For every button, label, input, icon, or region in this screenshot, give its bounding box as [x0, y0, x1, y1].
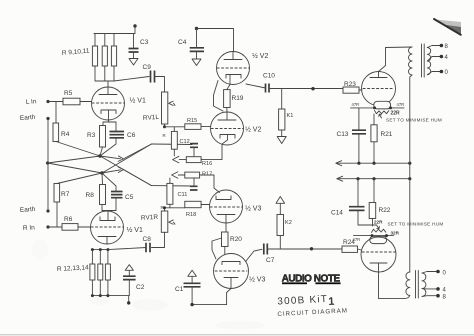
svg-text:C4: C4: [178, 39, 187, 46]
svg-text:R 12,13,14: R 12,13,14: [57, 264, 90, 273]
svg-text:R In: R In: [23, 224, 36, 232]
svg-text:47R: 47R: [352, 102, 360, 107]
svg-text:½ V1: ½ V1: [127, 226, 143, 234]
svg-text:22R: 22R: [391, 111, 401, 117]
svg-text:R 9,10,11: R 9,10,11: [62, 48, 91, 57]
svg-text:C2: C2: [136, 284, 145, 291]
svg-text:C5: C5: [125, 194, 134, 201]
svg-text:R20: R20: [230, 236, 242, 243]
svg-text:300B KiT: 300B KiT: [277, 294, 328, 308]
svg-text:4: 4: [445, 55, 449, 61]
svg-text:R6: R6: [64, 216, 73, 223]
svg-text:1: 1: [328, 296, 335, 308]
svg-text:C14: C14: [331, 210, 343, 217]
svg-text:C6: C6: [127, 132, 136, 139]
svg-text:C1: C1: [175, 286, 184, 293]
svg-text:½ V1: ½ V1: [130, 97, 146, 105]
svg-text:R5: R5: [64, 90, 73, 97]
svg-text:R4: R4: [61, 131, 70, 138]
svg-text:R18: R18: [186, 212, 196, 218]
svg-text:C12: C12: [180, 139, 190, 145]
svg-text:22R: 22R: [374, 220, 383, 225]
svg-text:CIRCUIT DIAGRAM: CIRCUIT DIAGRAM: [277, 307, 348, 318]
svg-text:R16: R16: [202, 161, 212, 167]
svg-text:C11: C11: [178, 192, 188, 198]
svg-text:Earth: Earth: [20, 206, 36, 214]
svg-text:SET TO MINIMISE HUM: SET TO MINIMISE HUM: [386, 118, 442, 123]
svg-text:R21: R21: [381, 131, 393, 138]
svg-text:0: 0: [445, 70, 449, 76]
svg-text:47R: 47R: [397, 102, 405, 107]
svg-text:RV1R: RV1R: [141, 214, 159, 222]
svg-text:R: R: [163, 133, 166, 138]
svg-text:4: 4: [443, 288, 447, 294]
svg-text:Earth: Earth: [20, 114, 36, 122]
svg-text:C8: C8: [143, 236, 152, 243]
svg-text:47R: 47R: [353, 237, 361, 242]
svg-text:C10: C10: [263, 73, 275, 80]
svg-text:K2: K2: [285, 220, 292, 226]
svg-text:C7: C7: [266, 257, 275, 264]
svg-text:R22: R22: [379, 207, 391, 214]
svg-text:C9: C9: [143, 64, 152, 71]
svg-text:R3: R3: [87, 132, 96, 139]
svg-text:½ V2: ½ V2: [252, 52, 268, 60]
svg-text:R7: R7: [61, 191, 70, 198]
svg-text:C3: C3: [140, 39, 149, 46]
svg-text:8: 8: [443, 295, 447, 301]
svg-text:SET TO MINIMISE HUM: SET TO MINIMISE HUM: [388, 222, 444, 227]
svg-text:½ V3: ½ V3: [245, 205, 261, 213]
svg-text:R: R: [161, 205, 164, 210]
svg-text:C13: C13: [337, 131, 349, 138]
svg-text:RV1L: RV1L: [143, 114, 160, 122]
svg-text:K1: K1: [287, 113, 294, 119]
svg-text:R8: R8: [86, 192, 95, 199]
svg-text:½ V2: ½ V2: [245, 126, 261, 134]
svg-text:R23: R23: [344, 81, 356, 88]
svg-text:L In: L In: [26, 98, 37, 106]
svg-text:R15: R15: [187, 118, 197, 124]
svg-text:R17: R17: [202, 172, 212, 178]
svg-text:32R: 32R: [391, 231, 400, 236]
svg-text:R19: R19: [232, 95, 244, 102]
svg-text:½ V3: ½ V3: [249, 276, 265, 284]
svg-text:0: 0: [443, 271, 447, 277]
svg-text:8: 8: [445, 44, 449, 50]
